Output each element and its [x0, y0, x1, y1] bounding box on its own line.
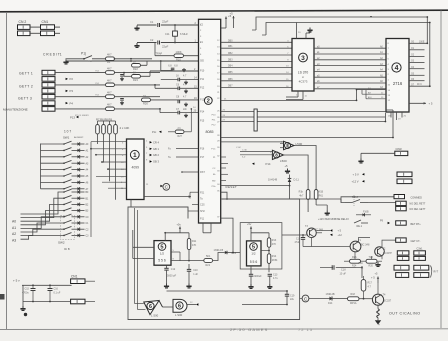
svg-text:47K: 47K	[272, 243, 277, 246]
wire R2 right	[115, 72, 161, 74]
svg-text:0.1 uF: 0.1 uF	[54, 292, 61, 295]
wire D13 to IC5b	[227, 252, 240, 254]
wire gett3 row	[55, 96, 106, 98]
switch SW1 pole 6 with diode	[41, 173, 90, 178]
svg-text:BC 348: BC 348	[361, 244, 370, 247]
resistor R22	[132, 59, 148, 71]
svg-text:BC347P: BC347P	[383, 252, 392, 255]
label ROM bottom right	[417, 84, 422, 86]
svg-text:2F.50 GAMES: 2F.50 GAMES	[230, 327, 269, 332]
svg-text:R14: R14	[272, 255, 277, 258]
ground C17	[267, 284, 272, 289]
IC2 left stub RST	[181, 171, 198, 173]
IC1 right pin CR4	[144, 140, 159, 144]
switch SW1 pole 2 with diode	[41, 148, 90, 153]
resistor R24	[350, 252, 361, 268]
junction dot ALE	[356, 100, 358, 102]
capacitor C10	[187, 264, 199, 284]
wire ROM A8 stub	[356, 87, 386, 91]
svg-text:F16B: F16B	[363, 212, 369, 214]
connector GET RT	[396, 221, 407, 225]
svg-text:1N4148: 1N4148	[268, 178, 278, 182]
svg-text:4.7u: 4.7u	[273, 277, 278, 280]
IC3 latch body	[292, 39, 314, 92]
IC1 bottom stub	[130, 200, 132, 208]
tiny cross mark	[378, 323, 380, 327]
timer IC5b body	[247, 241, 262, 266]
wire ROM A10 stub	[366, 90, 386, 99]
svg-text:C12: C12	[171, 268, 176, 271]
svg-text:OUT CICALINO: OUT CICALINO	[389, 312, 421, 316]
svg-text:+ 5: + 5	[371, 276, 375, 280]
wire relay feed	[300, 199, 341, 203]
svg-text:4K7: 4K7	[107, 66, 112, 70]
label 4x10K	[120, 126, 130, 130]
junction dot wrapB	[429, 85, 431, 87]
connector CN1 pin 1	[41, 25, 55, 30]
data bus labels	[228, 40, 233, 87]
label GETT 3	[18, 97, 32, 101]
connector CN1b pin1	[71, 279, 85, 284]
connector P1 pin 7	[42, 107, 55, 112]
wire row 71 to IC2	[150, 68, 199, 71]
capacitor C15	[22, 285, 36, 301]
wire bus vertical sw-net	[90, 142, 92, 237]
wire IC2 bottom stub	[203, 223, 211, 233]
label NO DET GETT	[410, 208, 426, 211]
capacitor C2 22pF	[137, 38, 199, 49]
svg-text:D.11: D.11	[294, 178, 300, 182]
transistor T2	[375, 247, 393, 257]
svg-text:A3: A3	[12, 239, 16, 243]
svg-text:22pF: 22pF	[162, 20, 169, 24]
wire CN1 stub right row1	[55, 26, 61, 28]
wire node to D14	[300, 298, 330, 300]
wire bottom long	[167, 290, 288, 292]
wire addr line3	[221, 120, 386, 122]
IC2 left stub b3	[188, 207, 199, 211]
svg-text:P1C: P1C	[211, 148, 216, 150]
svg-text:A0: A0	[12, 220, 16, 224]
IC3 top pin stub +5	[296, 23, 298, 39]
timer IC5a body	[154, 241, 171, 266]
wire gate2 in1	[240, 150, 272, 152]
label speckle sod	[236, 147, 241, 149]
connector P1 pin 1	[42, 70, 55, 75]
capacitor C9 row	[159, 108, 198, 117]
IC2 left pin numbers upper	[200, 24, 202, 56]
logic gate U6b LS00	[173, 299, 187, 317]
svg-text:MP1A: MP1A	[350, 302, 357, 305]
IC1 right pin GB3	[144, 160, 159, 164]
wire T3 emitter down	[303, 238, 340, 247]
wire wrap bus line B	[266, 23, 430, 87]
svg-text:P3: P3	[70, 89, 74, 93]
svg-text:4K7: 4K7	[107, 53, 112, 57]
capacitor C8 row	[176, 96, 188, 107]
svg-text:+5v: +5v	[247, 222, 252, 226]
wire SW1 feed bus	[40, 144, 42, 189]
svg-text:GB 3: GB 3	[153, 160, 159, 164]
resistor R21	[204, 255, 213, 267]
timer IC5a number	[158, 243, 166, 251]
plus5 gates	[285, 164, 289, 168]
svg-text:8085: 8085	[206, 130, 214, 134]
svg-text:RYT: RYT	[434, 271, 439, 274]
label ROM top right	[419, 41, 425, 43]
svg-text:00 C: 00 C	[417, 84, 422, 86]
switch SW1 pole 8 with diode	[41, 186, 90, 191]
wire RD to gate	[221, 141, 284, 143]
label +12V relay	[318, 218, 349, 221]
svg-text:1K: 1K	[133, 70, 136, 74]
connector CN1 pin 2	[41, 31, 55, 36]
IC3 bottom stubs	[286, 91, 308, 100]
IC3 number circle	[299, 53, 308, 62]
capacitor C3 column	[120, 75, 124, 81]
ground C10	[186, 284, 191, 289]
resistor R2	[106, 66, 115, 74]
bus a0-a7 labels	[317, 45, 384, 89]
svg-text:R17: R17	[368, 282, 373, 285]
capacitor C7 row	[154, 84, 198, 93]
border frame left line	[6, 12, 8, 329]
svg-text:+5: +5	[230, 12, 234, 16]
svg-text:72 13: 72 13	[298, 327, 313, 332]
wire IC5a out row	[171, 259, 204, 261]
plus5 T4 collector	[375, 273, 380, 294]
wire P13 arrow	[70, 115, 110, 119]
svg-text:CN1: CN1	[71, 274, 78, 278]
svg-text:C1: C1	[150, 20, 154, 24]
IC1 node C wire	[144, 184, 163, 187]
wire P16 arrow	[359, 262, 364, 278]
label SW2	[58, 241, 65, 245]
connector aux row2 left	[397, 256, 409, 260]
wire gate2 out	[284, 155, 309, 190]
connector relay no1	[396, 201, 407, 205]
svg-text:47uF: 47uF	[295, 241, 301, 244]
connector bott row2 left	[396, 273, 409, 278]
logic gate U8b LS00	[270, 150, 287, 163]
capacitor C12	[164, 265, 176, 283]
resistor R17	[361, 276, 372, 300]
svg-text:4K7: 4K7	[107, 91, 112, 95]
connector aux row1 left	[397, 251, 409, 255]
svg-text:1/2: 1/2	[251, 252, 256, 256]
resistor R26	[142, 94, 199, 106]
svg-text:+ 5 V: + 5 V	[353, 173, 360, 177]
wire IC5a top +5	[164, 223, 189, 241]
border frame bottom line	[0, 328, 448, 331]
resistor network R9	[114, 121, 118, 200]
IC1 left pin numbers	[121, 142, 124, 190]
resistor R15	[299, 190, 310, 200]
svg-text:6 MHz: 6 MHz	[180, 32, 188, 36]
relay contact RE.1	[354, 220, 368, 228]
bus collector vertical	[254, 109, 257, 131]
plus5 label	[371, 276, 375, 280]
IC4 right data pins O0-O7	[409, 42, 430, 87]
wire T1 base	[340, 246, 350, 248]
svg-text:GETT 3: GETT 3	[18, 97, 32, 101]
svg-text:DB6: DB6	[228, 79, 233, 81]
resistor R27	[168, 127, 191, 138]
svg-text:LS 370: LS 370	[298, 71, 309, 75]
svg-text:P4: P4	[70, 101, 74, 105]
wire ALE long	[221, 137, 393, 139]
plus5 T3 arrows	[316, 229, 342, 237]
label C361	[417, 248, 424, 251]
logic gate U8a LS00	[280, 141, 303, 149]
svg-text:CR 4: CR 4	[153, 140, 159, 144]
svg-text:RT / N 4B6R9: RT / N 4B6R9	[75, 115, 89, 117]
svg-text:+5v: +5v	[177, 223, 182, 227]
svg-text:DB1: DB1	[228, 46, 233, 48]
svg-text:C10: C10	[193, 269, 198, 272]
wire addr line2	[221, 115, 386, 117]
label R7 R6 R8 R9	[96, 118, 112, 122]
switch SW1 pole 10 with diode	[21, 195, 90, 217]
connector bott row1 left	[394, 265, 409, 270]
logic gate U6a LS00	[144, 301, 163, 318]
IC2 left stub P17	[168, 156, 199, 159]
resistor network R7	[102, 121, 106, 163]
svg-text:10 uF: 10 uF	[340, 273, 347, 276]
svg-text:R20: R20	[369, 265, 374, 268]
label +5V cn3	[353, 173, 360, 177]
connector P1 pin 2	[42, 77, 55, 82]
resistor R23	[123, 70, 150, 82]
svg-text:+ 5 v: + 5 v	[13, 279, 20, 283]
capacitor C16	[48, 285, 61, 301]
resistor R19	[348, 293, 360, 305]
wire manutenzione row	[55, 108, 106, 110]
label COMMED	[411, 197, 423, 200]
svg-text:DB0: DB0	[228, 40, 233, 42]
IC4 left pin numbers	[388, 43, 391, 102]
capacitor C1 22pF	[137, 20, 199, 28]
capacitor C14	[295, 234, 306, 246]
diode D14	[326, 293, 335, 305]
wire vert junction	[191, 108, 193, 132]
svg-text:R10: R10	[176, 58, 181, 62]
crystal XT1	[165, 24, 188, 43]
svg-text:CN1: CN1	[42, 20, 49, 24]
svg-text:+ 5: + 5	[429, 102, 433, 106]
IC3 top pin 20 label	[298, 32, 301, 34]
wire CN2-CN1 row2	[30, 32, 41, 34]
svg-text:R23: R23	[133, 78, 138, 82]
label GETT 2	[19, 85, 33, 89]
wire addr bend to IC4	[384, 113, 386, 122]
wire gate6 left verticals	[135, 208, 138, 310]
label GETT 1	[19, 72, 33, 76]
svg-text:+ 5: + 5	[338, 230, 342, 233]
wire row 61 long	[66, 60, 199, 62]
label MANUTENZIONE	[3, 108, 28, 112]
svg-text:4: 4	[395, 65, 399, 72]
label NO DET RETT	[410, 203, 426, 206]
IC4 part label	[393, 81, 403, 86]
svg-text:SW2: SW2	[58, 241, 65, 245]
svg-text:C3b1: C3b1	[417, 248, 424, 251]
svg-text:GETT 2: GETT 2	[19, 85, 33, 89]
connector CN1 label	[42, 20, 49, 24]
IC2 right mid stubs	[221, 157, 228, 181]
label speckle f11	[88, 61, 93, 63]
connector aux row1 right	[414, 251, 426, 255]
label IO7	[64, 130, 71, 134]
svg-text:TRAP: TRAP	[156, 53, 163, 56]
IC4 EPROM body	[386, 39, 409, 113]
IC2 CPU body	[199, 19, 221, 223]
timer IC5b outer box	[240, 223, 282, 269]
IC2 left stub P16	[168, 148, 199, 151]
svg-text:2200uF: 2200uF	[254, 275, 263, 278]
svg-text:GB 2: GB 2	[153, 153, 159, 157]
svg-text:BC337: BC337	[384, 300, 392, 303]
svg-text:SW1: SW1	[63, 136, 70, 140]
scan speck top	[370, 16, 372, 17]
svg-text:C2: C2	[150, 38, 154, 42]
svg-text:6: 6	[178, 303, 181, 309]
svg-text:+12V PER MOBINE RELAY: +12V PER MOBINE RELAY	[318, 218, 349, 221]
svg-text:R61: R61	[319, 195, 324, 198]
svg-text:SH2: SH2	[200, 210, 205, 213]
svg-text:A2: A2	[12, 232, 16, 236]
svg-text:C14: C14	[296, 238, 301, 241]
svg-text:2716: 2716	[393, 81, 403, 86]
wire gett2 row	[55, 84, 106, 86]
svg-text:R2A: R2A	[352, 256, 357, 259]
IC3 top pin stub gnd	[306, 28, 310, 39]
svg-text:+12 V: +12 V	[352, 180, 359, 184]
title text	[230, 327, 313, 332]
label +5V	[13, 279, 20, 283]
wire reset	[221, 185, 291, 187]
svg-text:ALIMENT.: ALIMENT.	[74, 136, 84, 139]
switch SW1 pole 16 with diode	[21, 233, 90, 240]
wire R13 R14 vertical	[251, 233, 270, 272]
svg-text:5K1: 5K1	[206, 255, 211, 258]
diode D11	[288, 175, 292, 186]
junction dot wrapA	[426, 42, 428, 44]
connector CN3 pin3	[397, 179, 412, 184]
resistor R11	[187, 233, 197, 262]
wire left vert	[22, 285, 24, 306]
svg-text:2K54: 2K54	[272, 259, 278, 262]
wire under R24	[344, 260, 382, 262]
pin 1 2 labels	[195, 22, 197, 43]
wire +5 bottom	[23, 301, 71, 303]
svg-text:R13: R13	[272, 239, 277, 242]
label A2	[12, 232, 16, 236]
svg-text:C 30: C 30	[242, 150, 247, 152]
svg-text:4b7: 4b7	[299, 195, 304, 198]
resistor R20	[366, 256, 377, 268]
dashed box SW2	[61, 216, 75, 240]
svg-text:MANUTENZIONE: MANUTENZIONE	[3, 108, 28, 112]
label RESET	[226, 185, 238, 189]
svg-text:A1: A1	[12, 226, 16, 230]
svg-text:DB4: DB4	[228, 66, 233, 68]
svg-text:C18: C18	[341, 268, 346, 271]
svg-text:1K: 1K	[176, 75, 179, 78]
switch SW1 pole 4 with diode	[41, 160, 90, 165]
border frame top line	[0, 10, 448, 12]
svg-text:P14: P14	[200, 111, 205, 114]
switch SW1 pole 12 with diode	[21, 208, 90, 225]
scan mark left edge	[0, 294, 5, 300]
wire IC2 pin37	[221, 218, 233, 252]
wire RE1 arrow	[368, 220, 390, 225]
transistor T4	[372, 294, 391, 306]
label CREDIT	[43, 53, 62, 57]
svg-text:100K: 100K	[176, 50, 182, 54]
svg-text:4K7: 4K7	[107, 103, 112, 107]
ground gates	[285, 169, 290, 174]
IC2 plus5 arrow top	[221, 14, 232, 28]
wire CN3 gnd	[361, 153, 395, 158]
resistor R10	[155, 43, 199, 62]
label speckle n1	[75, 115, 89, 117]
label P1j	[81, 52, 86, 56]
svg-text:DB5: DB5	[228, 72, 233, 74]
svg-text:P13: P13	[200, 98, 205, 101]
label 1N4148	[268, 178, 278, 182]
svg-text:RST: RST	[200, 171, 205, 174]
svg-text:DB2: DB2	[228, 53, 233, 55]
label SW1	[63, 136, 84, 140]
wire reset down	[289, 186, 291, 199]
label GET RT	[411, 223, 422, 226]
wire RE.A to boxes	[341, 197, 396, 203]
switch SW1 pole 14 with diode	[21, 220, 90, 232]
connector bott row1 right	[414, 265, 429, 270]
resistor R1	[106, 53, 115, 64]
IC4 number circle	[392, 63, 401, 72]
IC1 bottom wire right	[144, 195, 191, 197]
svg-text:P1b: P1b	[359, 262, 364, 265]
plus5 arrow wrap	[230, 12, 235, 29]
junction dots sw bus	[90, 148, 109, 170]
ground CN3	[358, 159, 363, 164]
wire IC5a left pins	[133, 230, 154, 259]
svg-text:6: 6	[149, 304, 152, 310]
junction dot R1 node	[114, 58, 116, 60]
bullet mark bottom left	[24, 313, 27, 316]
IC2 left stub b2	[192, 204, 199, 206]
svg-text:3: 3	[301, 55, 305, 62]
svg-text:22u: 22u	[290, 298, 295, 301]
wire gate6b input arrow	[187, 302, 242, 306]
label CN3	[396, 147, 402, 151]
resistor R3	[106, 79, 115, 87]
ground relay	[316, 205, 330, 216]
wire bus IC3 to IC4	[314, 48, 386, 89]
label speckle f12	[95, 71, 100, 73]
svg-text:P11: P11	[200, 78, 205, 81]
op-amp IC1 body	[127, 139, 145, 200]
svg-text:BET RT+: BET RT+	[411, 223, 422, 226]
diode D13	[214, 249, 237, 255]
wire R1 to node	[115, 58, 153, 60]
wire data bus D0-D7 IC2 to IC3	[221, 42, 292, 87]
junction dot addr bend	[385, 121, 387, 123]
svg-text:P1j: P1j	[81, 52, 86, 56]
ground C1	[134, 26, 139, 31]
